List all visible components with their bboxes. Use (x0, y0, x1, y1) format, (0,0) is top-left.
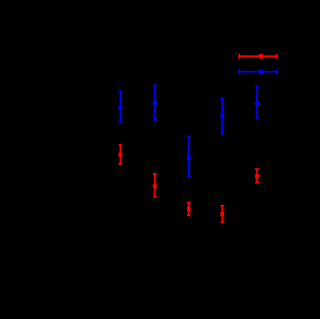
red errorbar point 5 (255, 169, 259, 183)
legend blue errorbar symbol (239, 69, 277, 74)
blue errorbar point 4 (220, 99, 224, 134)
red errorbar point 4 (220, 206, 224, 222)
blue errorbar point 5 (255, 87, 259, 119)
legend red errorbar symbol (239, 54, 277, 59)
blue errorbar point 3 (187, 137, 191, 176)
red errorbar point 3 (187, 203, 191, 216)
red errorbar point 1 (119, 145, 123, 164)
blue errorbar point 1 (119, 91, 123, 122)
red errorbar point 2 (153, 174, 157, 197)
blue errorbar point 2 (153, 85, 157, 120)
